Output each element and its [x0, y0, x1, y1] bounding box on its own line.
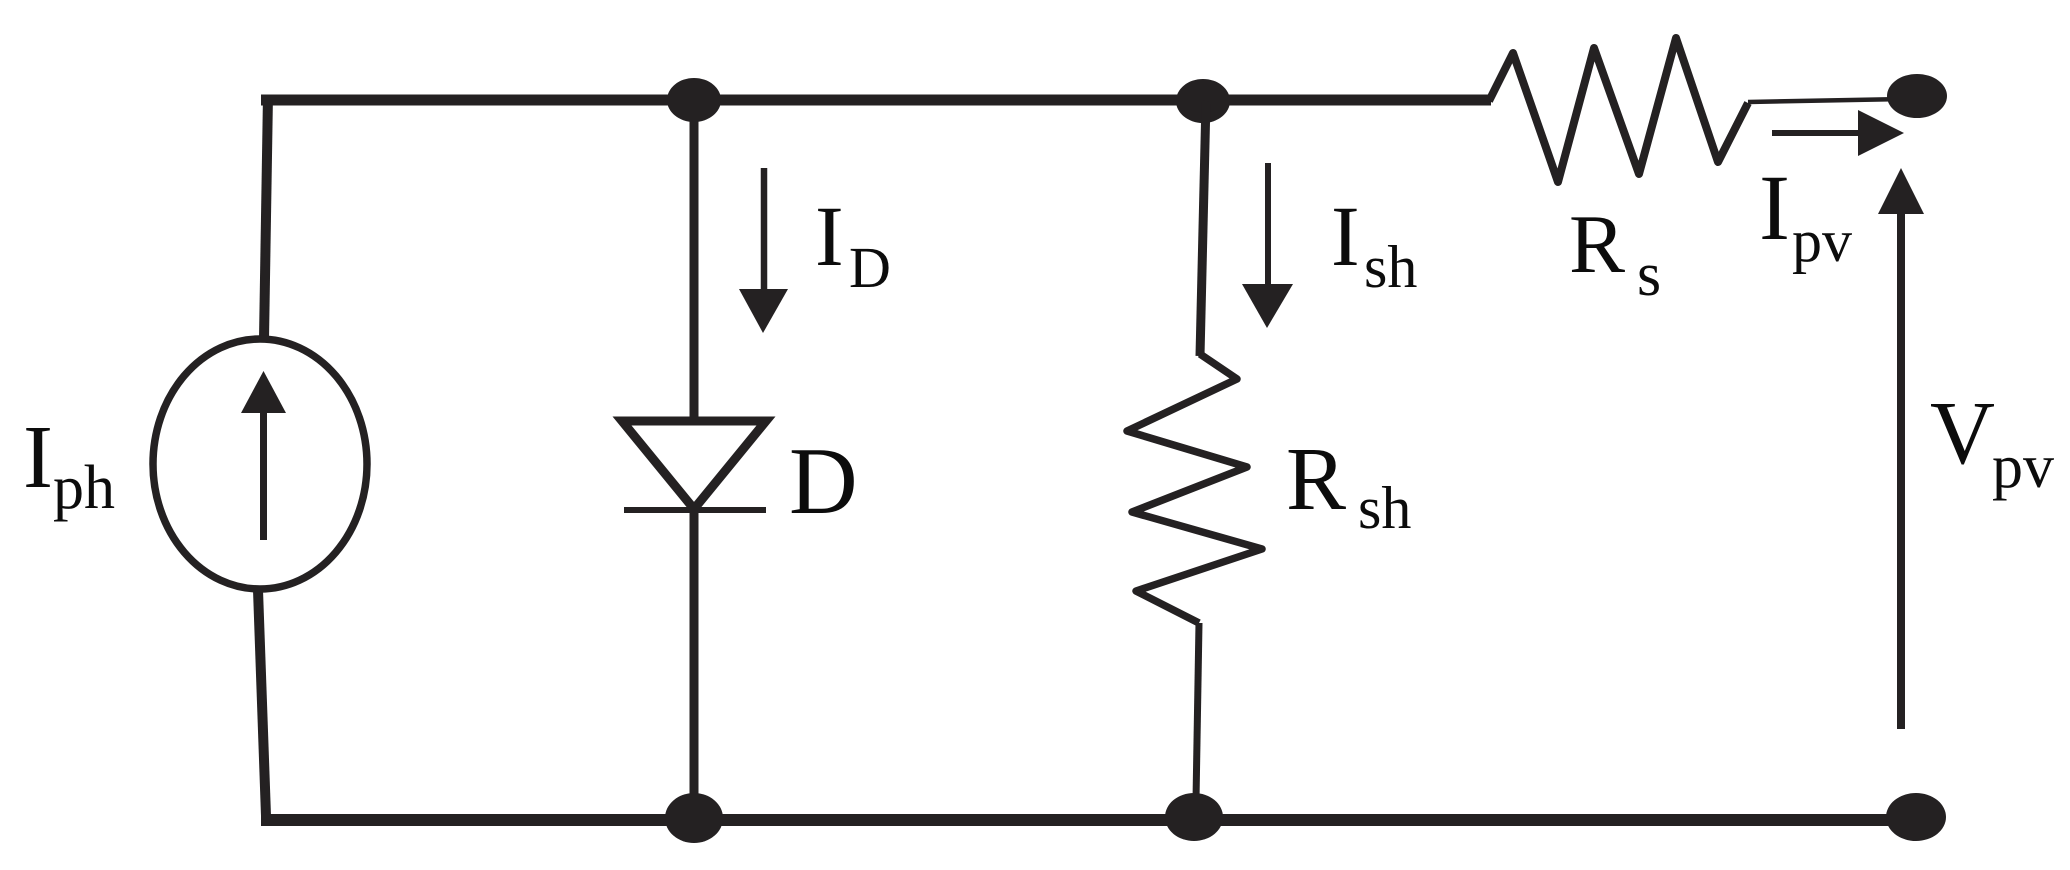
wire: top rail from left corner through node A and node B to Rs — [261, 95, 1491, 106]
current arrow ID (points down) — [761, 168, 768, 296]
svg-text:ph: ph — [53, 454, 115, 522]
wire: resistor Rsh to bottom rail — [1196, 623, 1199, 800]
diode D cathode bar — [624, 507, 766, 513]
negative output terminal (bottom right) — [1886, 793, 1946, 841]
node A (top junction of diode branch) — [667, 78, 721, 122]
wire: Rs to positive output terminal — [1748, 99, 1905, 102]
svg-text:R: R — [1569, 198, 1625, 291]
current source arrow (points up) — [260, 412, 267, 540]
current source Iph (circle symbol) — [153, 339, 367, 589]
svg-text:I: I — [1331, 188, 1360, 284]
svg-text:D: D — [849, 235, 891, 300]
bottom junction of shunt branch — [1165, 793, 1223, 841]
wire: left vertical from top rail down to current source — [264, 95, 268, 339]
svg-text:pv: pv — [1792, 208, 1852, 274]
wire: bottom rail from left corner through bottom junctions to negative terminal — [261, 814, 1916, 826]
svg-text:R: R — [1286, 430, 1346, 529]
current arrow Ipv (points right) — [1772, 130, 1862, 136]
svg-text:I: I — [815, 188, 844, 284]
svg-text:sh: sh — [1358, 475, 1411, 541]
svg-text:I: I — [1759, 157, 1790, 260]
svg-text:pv: pv — [1992, 433, 2054, 501]
svg-text:D: D — [789, 428, 858, 534]
voltage arrow Vpv (points up) — [1897, 212, 1905, 729]
svg-text:I: I — [23, 408, 53, 507]
wire: diode cathode down to bottom rail — [690, 510, 699, 800]
svg-text:s: s — [1637, 241, 1661, 309]
wire: node B down to resistor Rsh — [1200, 101, 1206, 356]
wire: current source bottom to bottom rail — [258, 590, 266, 816]
node B (top junction of shunt branch) — [1176, 79, 1230, 123]
current arrow Ish (points down) — [1265, 163, 1271, 295]
diode D (triangle) — [622, 421, 766, 509]
wire: node A down to diode anode — [690, 100, 699, 419]
svg-text:sh: sh — [1364, 234, 1417, 300]
resistor Rsh (vertical zigzag) — [1127, 354, 1262, 623]
bottom junction of diode branch — [665, 793, 723, 843]
resistor Rs (horizontal zigzag) — [1489, 38, 1748, 182]
svg-text:V: V — [1930, 384, 1995, 483]
positive output terminal (top right) — [1887, 74, 1947, 118]
